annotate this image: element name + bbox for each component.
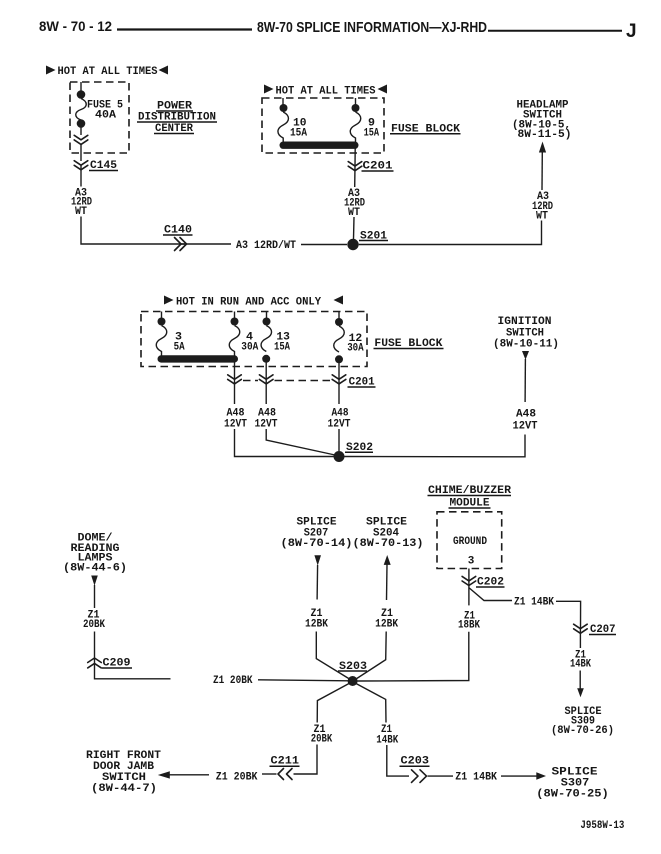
label: HOT AT ALL TIMES (left) (46, 66, 168, 79)
header rule left (117, 28, 252, 30)
wire fuse 13 to connector (265, 362, 267, 379)
label Z1 14BK (C203 leg) (376, 724, 398, 746)
connector C201 (bottom) half under fuse 12 (332, 375, 346, 384)
bus bar (top fuse block) (280, 142, 359, 149)
connector C201 (top) (348, 162, 362, 171)
splice S203 (348, 676, 358, 686)
wire PDC to C145 (80, 144, 82, 161)
svg-text:HOT AT ALL TIMES: HOT AT ALL TIMES (276, 86, 376, 98)
fuse 12 terminal dot (bottom) (335, 355, 343, 363)
splice S202 (334, 451, 345, 462)
svg-text:3: 3 (468, 556, 475, 568)
fuse 10 top lead (282, 98, 284, 105)
wire S204 arrow to label (386, 565, 389, 601)
wire bus bar to C201 (354, 148, 356, 166)
label: CHIME/BUZZER MODULE (428, 485, 512, 510)
wire C202 down to Z1 18BK label (468, 581, 470, 605)
label Z1 20BK (to door jamb) (216, 772, 258, 784)
wire Z1 18BK to S203 (right horizontal) (358, 632, 469, 681)
arrow to splice S309 (577, 688, 584, 697)
label Z1 14BK (to S307) (455, 772, 497, 784)
header rule right (488, 30, 622, 32)
header: page number 8W-70-12 (39, 18, 112, 34)
svg-text:J958W-13: J958W-13 (580, 820, 624, 832)
arrow from ignition switch (522, 351, 529, 360)
fuse F10 element (278, 112, 289, 142)
label A3 12RD WT (headlamp) (532, 191, 553, 223)
label: IGNITION SWITCH (8W-10-11) (493, 316, 559, 351)
svg-text:(8W-10-11): (8W-10-11) (493, 339, 559, 351)
label: SPLICE S309 (8W-70-26) (551, 706, 614, 737)
svg-text:14BK: 14BK (376, 734, 398, 746)
fuse 9 top lead (355, 98, 357, 105)
svg-text:Z1 20BK: Z1 20BK (213, 675, 253, 687)
label Z1 12BK (S207 leg) (305, 608, 328, 631)
svg-text:WT: WT (536, 211, 548, 223)
label C201 (bottom) (348, 377, 376, 389)
label GROUND (453, 536, 487, 548)
svg-text:GROUND: GROUND (453, 536, 487, 548)
bus bar (fuse block 2) (158, 355, 239, 362)
wire S202 to ignition corner (345, 435, 526, 457)
connector C201 (bottom) half under fuse 13 (259, 375, 273, 384)
label: FUSE 5 40A (87, 100, 123, 122)
label A3 12RD/WT (on wire) (236, 240, 296, 252)
arrow from dome lamps (91, 576, 98, 586)
label: fuse 3 5A (174, 332, 185, 354)
wire fuse 13 connector to label (265, 379, 267, 404)
connector C211 (278, 769, 292, 780)
wire headlamp arrow to label (541, 152, 543, 190)
wire Z1 14BK label to corner and right (387, 745, 409, 776)
label C140 (163, 225, 193, 237)
svg-text:(8W-70-14): (8W-70-14) (281, 538, 353, 550)
svg-text:8W-70 SPLICE INFORMATION—XJ-RH: 8W-70 SPLICE INFORMATION—XJ-RHD (257, 19, 487, 36)
svg-text:WT: WT (75, 206, 87, 218)
label A48 12VT (under fuse 12) (328, 408, 351, 431)
header: section letter J (626, 21, 637, 42)
arrow to splice S204 (384, 555, 391, 565)
fuse 13 terminal dot (bottom) (262, 355, 270, 363)
label Z1 12BK (S204 leg) (375, 608, 398, 631)
fuse 4 top lead (234, 312, 236, 319)
chime/buzzer module box (dashed) (437, 512, 502, 569)
wire fuse 4 connector to label (234, 379, 236, 404)
connector C202 (462, 576, 476, 585)
wire A3 below C145 (80, 165, 82, 187)
fuse F4 element (229, 326, 240, 356)
svg-text:(8W-70-13): (8W-70-13) (353, 538, 424, 550)
wire ignition arrow to label (524, 359, 526, 402)
svg-text:Z1 20BK: Z1 20BK (216, 772, 258, 784)
label A3 12RD WT (left) (71, 188, 92, 219)
label C211 (270, 756, 300, 768)
connector C207 (574, 624, 588, 633)
connector C145 (74, 161, 88, 170)
in-line connector C140 (175, 238, 187, 251)
connector half inside PDC (74, 135, 88, 144)
wire label to S307 arrow (501, 775, 537, 777)
wire A3 down to corner (81, 217, 186, 245)
fuse 10 terminal dot (280, 104, 288, 112)
label: HOT AT ALL TIMES (fuse block) (264, 85, 387, 98)
label A3 12RD WT (center) (344, 188, 365, 219)
wire S207 arrow to label (316, 565, 319, 600)
svg-text:Z1 14BK: Z1 14BK (455, 772, 497, 784)
wire S203 to C211 leg (lower-left diagonal) (317, 684, 349, 723)
label: SPLICE S207 (8W-70-14) (281, 517, 353, 551)
wire fuse 13 diagonal to S202 (266, 429, 335, 455)
label C207 (589, 624, 616, 636)
svg-text:A48: A48 (516, 409, 536, 421)
fuse 5 top terminal dot (77, 90, 86, 99)
wire fuse 12 connector to label (338, 379, 340, 404)
connector C201 (bottom) half under fuse 4 (228, 375, 242, 384)
label Z1 20BK (C211 leg) (311, 724, 333, 745)
label: SPLICE S204 (8W-70-13) (353, 517, 424, 551)
wire C203 to label gap (428, 775, 454, 777)
fuse 5 bottom terminal dot (77, 119, 86, 128)
label C201 (top) (362, 161, 394, 173)
wire Z1 12BK to S203 (upper-right diagonal) (356, 632, 386, 680)
fuse F5 element (76, 99, 87, 121)
arrow to headlamp switch (539, 142, 546, 153)
svg-text:Z1 14BK: Z1 14BK (514, 597, 554, 609)
wire S201 to headlamp corner (359, 221, 542, 245)
svg-text:12VT: 12VT (328, 419, 351, 431)
fuse block 2 box (dashed) (141, 312, 367, 367)
svg-text:(8W-44-7): (8W-44-7) (91, 783, 157, 795)
fuse F3 element (156, 326, 167, 356)
splice S201 (347, 239, 358, 250)
wire fuse 4 to connector (234, 362, 236, 379)
wire S203 to C203 leg (lower-right diagonal) (356, 684, 386, 723)
svg-text:20BK: 20BK (311, 733, 333, 745)
label pin 3 (468, 556, 475, 568)
svg-text:J: J (626, 21, 637, 42)
wire C140 to label gap (181, 243, 231, 245)
svg-text:30A: 30A (347, 342, 364, 354)
connector C203 (412, 770, 427, 783)
connector C209 (88, 658, 102, 668)
wire label gap to S203 (258, 680, 348, 681)
svg-text:IGNITION: IGNITION (498, 316, 552, 328)
label: SPLICE S307 (8W-70-25) (536, 767, 609, 801)
arrow to right front door jamb switch (158, 771, 170, 778)
wire C211 to label gap (262, 773, 277, 775)
label: fuse 12 30A (347, 333, 364, 355)
wire dome label to C209 (94, 632, 96, 664)
wire Z1 12BK to S203 (upper-left diagonal) (316, 632, 349, 680)
label: fuse 13 15A (274, 332, 290, 354)
svg-text:12VT: 12VT (513, 421, 538, 433)
svg-text:(8W-44-6): (8W-44-6) (63, 563, 127, 575)
label A48 12VT (ignition) (513, 409, 538, 433)
wire Z1 14BK label to S309 arrow (579, 671, 581, 690)
wire label gap to S201 (301, 244, 347, 246)
fuse F12 element (334, 326, 345, 352)
label S203 (338, 661, 367, 673)
svg-text:30A: 30A (241, 341, 258, 353)
label Z1 18BK (458, 610, 480, 631)
wire fuse 12 to S202 (338, 429, 340, 451)
arrow from splice S207 (314, 555, 321, 565)
wire dome arrow to label (94, 585, 96, 608)
fuse 3 top lead (161, 312, 163, 319)
label: POWER DISTRIBUTION CENTER (137, 101, 217, 136)
svg-text:(8W-70-26): (8W-70-26) (551, 725, 614, 737)
wire C201 to A3 label (354, 166, 356, 187)
svg-text:14BK: 14BK (570, 659, 591, 671)
wire fuse 4 to S202 corner (235, 429, 334, 457)
wire fuse 12 to connector (338, 363, 340, 380)
wire branch C202 to Z1 14BK horizontal (469, 588, 512, 601)
svg-text:A3 12RD/WT: A3 12RD/WT (236, 240, 296, 252)
svg-text:12BK: 12BK (305, 619, 328, 631)
fuse block box (dashed, top) (262, 98, 384, 153)
svg-text:8W - 70 - 12: 8W - 70 - 12 (39, 18, 112, 34)
label: HOT IN RUN AND ACC ONLY (164, 296, 343, 309)
svg-text:20BK: 20BK (83, 619, 105, 631)
svg-text:15A: 15A (364, 127, 380, 139)
wire Z1 20BK label to corner and left (294, 745, 318, 775)
label C202 (476, 577, 505, 589)
svg-text:15A: 15A (290, 127, 307, 139)
svg-text:HOT IN RUN AND ACC ONLY: HOT IN RUN AND ACC ONLY (176, 296, 321, 308)
svg-text:40A: 40A (95, 110, 116, 122)
figure number J958W-13 (580, 820, 624, 832)
wire A3 label to S201 (353, 217, 356, 239)
label Z1 14BK (branch to C207) (514, 597, 554, 609)
svg-text:8W-11-5): 8W-11-5) (518, 129, 572, 141)
label: fuse 10 15A (290, 117, 307, 139)
label S201 (359, 230, 388, 242)
fuse 9 terminal dot (352, 104, 360, 112)
dashed link of connector C201 (243, 380, 331, 382)
wire label to door jamb arrow (169, 774, 210, 776)
svg-text:12BK: 12BK (375, 619, 398, 631)
svg-text:5A: 5A (174, 341, 185, 353)
fuse F13 element (261, 326, 272, 352)
svg-text:12VT: 12VT (224, 419, 247, 431)
fuse F9 element (350, 112, 361, 142)
label C203 (400, 756, 430, 768)
label C209 (102, 658, 132, 670)
fuse 13 top lead (266, 312, 268, 319)
wire C207 to Z1 14BK label (579, 629, 581, 648)
fuse 12 terminal dot (top) (335, 318, 343, 326)
label FUSE BLOCK (top) (390, 123, 461, 135)
label: RIGHT FRONT DOOR JAMB SWITCH (8W-44-7) (86, 750, 161, 795)
label S202 (345, 442, 373, 454)
label: fuse 9 15A (364, 117, 380, 139)
label: DOME/READING LAMPS (8W-44-6) (63, 533, 127, 575)
label Z1 20BK (dome) (83, 610, 105, 632)
power distribution center box (dashed) (70, 82, 129, 153)
wire fuse 5 to PDC connector (80, 128, 82, 136)
svg-text:18BK: 18BK (458, 620, 480, 632)
wire Z1 14BK to C207 corner (556, 601, 581, 629)
svg-text:HOT AT ALL TIMES: HOT AT ALL TIMES (58, 66, 158, 78)
wire module to C202 (468, 569, 470, 582)
label Z1 14BK (C207 leg) (570, 650, 591, 671)
wire C209 to corner and left horizontal (95, 663, 171, 679)
label: HEADLAMP SWITCH (8W-10-5, 8W-11-5) (512, 100, 572, 141)
label A48 12VT (under fuse 4) (224, 408, 247, 431)
label: fuse 4 30A (241, 332, 258, 354)
fuse 12 top lead (338, 312, 340, 319)
svg-text:15A: 15A (274, 341, 290, 353)
label A48 12VT (under fuse 13) (255, 408, 278, 431)
svg-text:(8W-70-25): (8W-70-25) (536, 789, 609, 801)
fuse 5 top lead (80, 82, 82, 92)
svg-text:12VT: 12VT (255, 419, 278, 431)
fuse 13 terminal dot (top) (263, 318, 271, 326)
fuse 3 terminal dot (158, 318, 166, 326)
arrow to splice S307 (536, 772, 546, 780)
fuse 4 terminal dot (231, 318, 239, 326)
label Z1 20BK (on left horizontal wire) (213, 675, 253, 687)
label FUSE BLOCK (middle) (374, 338, 444, 350)
label C145 (89, 160, 118, 172)
header: title 8W-70 SPLICE INFORMATION XJ-RHD (257, 19, 487, 36)
